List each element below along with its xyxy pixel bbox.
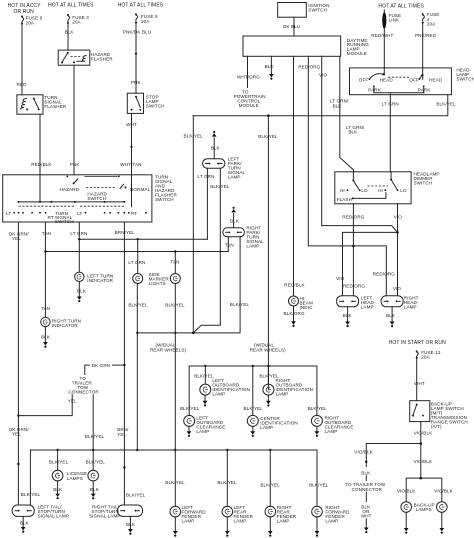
svg-text:BLK/YEL: BLK/YEL bbox=[244, 406, 264, 411]
svg-text:LAMP: LAMP bbox=[182, 519, 195, 524]
wire DK GRN/YEL from switch bbox=[9, 222, 29, 505]
svg-text:PARK: PARK bbox=[368, 88, 381, 93]
svg-text:LO: LO bbox=[361, 188, 368, 193]
svg-text:RT: RT bbox=[48, 215, 54, 220]
wire BLK/YEL below side marker right bbox=[165, 284, 185, 451]
svg-text:LAMPS: LAMPS bbox=[416, 507, 432, 512]
svg-text:BRN/YEL: BRN/YEL bbox=[115, 230, 136, 235]
svg-text:RED/ORG: RED/ORG bbox=[298, 65, 320, 70]
svg-text:RED/ORG: RED/ORG bbox=[373, 271, 395, 276]
ground below right forward fender lamp bbox=[315, 517, 320, 537]
svg-text:BLK/ORG: BLK/ORG bbox=[284, 311, 305, 316]
ground below left forward fender lamp bbox=[173, 517, 178, 537]
svg-text:20A: 20A bbox=[421, 355, 430, 360]
wire PNK/RED fuse4 to headlamp switch bbox=[415, 24, 437, 80]
svg-text:BLK: BLK bbox=[211, 145, 221, 150]
lamp right outboard clearance bbox=[311, 415, 353, 434]
svg-text:FLASH: FLASH bbox=[337, 197, 352, 202]
wire VIO from module bbox=[319, 56, 328, 225]
svg-text:BLK: BLK bbox=[343, 313, 353, 318]
wire RED/ORG from module bbox=[298, 56, 320, 246]
svg-text:20A: 20A bbox=[427, 22, 436, 27]
wire LT GRN from left park lamp bbox=[197, 168, 214, 239]
wire BLK/YEL from left park lamp (jog to bus) bbox=[193, 168, 230, 333]
svg-text:LT: LT bbox=[6, 211, 11, 216]
svg-text:BLK/YEL: BLK/YEL bbox=[128, 302, 148, 307]
wire BLK/YEL w-dual bus y366 bbox=[189, 365, 317, 367]
lamp left turn indicator bbox=[75, 272, 114, 283]
svg-text:SWITCH: SWITCH bbox=[146, 104, 165, 109]
wire LT GRN headlamp switch to dimmer bbox=[382, 93, 399, 172]
svg-text:HAZARD: HAZARD bbox=[60, 187, 80, 192]
svg-text:BLK/YEL: BLK/YEL bbox=[258, 134, 278, 139]
wire RED/BLK module to hi-beam indicator bbox=[293, 56, 295, 296]
headlamp dimmer switch S3 bbox=[335, 172, 440, 204]
svg-text:BLK: BLK bbox=[126, 522, 136, 527]
svg-text:OR RUN: OR RUN bbox=[14, 9, 35, 15]
node HOT AT ALL TIMES (fuse 3) bbox=[48, 3, 94, 9]
wire WHT / WHT-TAN stop switch to switch box bbox=[120, 113, 141, 174]
wire PNK hazard flasher to switch bbox=[70, 65, 81, 175]
svg-text:LT: LT bbox=[77, 211, 82, 216]
lamp hi beam indicator bbox=[284, 282, 313, 309]
wire BLK/YEL ground bus y450 bbox=[30, 449, 317, 451]
svg-text:BLK: BLK bbox=[90, 487, 100, 492]
svg-text:BLK: BLK bbox=[230, 219, 240, 224]
svg-text:MODULE: MODULE bbox=[239, 103, 259, 108]
wire PNK/DK BLU fuse5 to stop lamp switch bbox=[123, 24, 151, 94]
lamp left park/turn signal bbox=[203, 157, 246, 180]
ground below hi beam indicator bbox=[284, 306, 305, 327]
svg-text:SWITCH: SWITCH bbox=[155, 197, 174, 202]
svg-text:BLK/YEL: BLK/YEL bbox=[217, 480, 237, 485]
ground below back-up lamp right bbox=[439, 512, 444, 533]
svg-text:BLK/YEL: BLK/YEL bbox=[86, 460, 106, 465]
wire to left outboard clearance lamp bbox=[180, 366, 200, 416]
wire BLK/YEL drop to w/dual section bbox=[230, 116, 278, 390]
wire YEL trailer connector to dk grn/yel bbox=[18, 395, 77, 416]
ground below left headlamp bbox=[343, 307, 353, 327]
ground below left outboard id lamp bbox=[203, 395, 208, 406]
svg-text:LIGHTS: LIGHTS bbox=[149, 281, 166, 286]
svg-text:VIO: VIO bbox=[393, 286, 402, 291]
svg-text:LAMP: LAMP bbox=[212, 392, 225, 397]
svg-text:SWITCH: SWITCH bbox=[308, 7, 327, 12]
wire BLK/YEL from right park lamp bbox=[193, 237, 240, 333]
fuse F4 20A bbox=[422, 12, 440, 26]
wire VIO bus from module to junction bbox=[322, 226, 398, 233]
svg-text:LAMP: LAMP bbox=[260, 425, 273, 430]
svg-text:LAMP: LAMP bbox=[196, 429, 209, 434]
fuse F5 20A bbox=[135, 13, 158, 24]
svg-text:BLK/YEL: BLK/YEL bbox=[260, 482, 280, 487]
node VIO junction bbox=[396, 231, 399, 234]
hazard flasher bbox=[58, 50, 113, 65]
node BLK/YEL junction on bus bbox=[267, 114, 270, 117]
fuse F9 20A bbox=[21, 16, 43, 26]
svg-text:BLK/YEL: BLK/YEL bbox=[49, 460, 69, 465]
svg-text:CONNECTOR: CONNECTOR bbox=[68, 390, 99, 395]
svg-text:WHT: WHT bbox=[361, 514, 372, 519]
ground right trailer tow bbox=[364, 528, 369, 534]
svg-text:SIGNAL LAMP: SIGNAL LAMP bbox=[89, 514, 121, 519]
wire license lamp 2 drop bbox=[86, 450, 106, 470]
wire VIO/BLK from back-up switch bbox=[414, 422, 434, 479]
node HOT AT ALL TIMES (fuse 5) bbox=[118, 3, 164, 9]
wire BLK fuse3 to hazard flasher bbox=[65, 24, 75, 50]
svg-text:LT GRN: LT GRN bbox=[70, 231, 87, 236]
svg-text:HOT IN START OR RUN: HOT IN START OR RUN bbox=[389, 340, 446, 346]
wire RED fuse9 to turn signal flasher bbox=[17, 25, 28, 95]
svg-text:BLK: BLK bbox=[386, 313, 396, 318]
ground below left turn indicator bbox=[77, 282, 87, 303]
turn signal flasher bbox=[17, 95, 67, 114]
svg-text:LAMP: LAMP bbox=[228, 175, 241, 180]
svg-text:YEL: YEL bbox=[12, 236, 21, 241]
svg-text:RED/ORG: RED/ORG bbox=[342, 214, 364, 219]
svg-text:RED/ORG: RED/ORG bbox=[343, 284, 365, 289]
svg-text:RED/BLK: RED/BLK bbox=[31, 162, 52, 167]
ground below right turn indicator bbox=[41, 327, 51, 348]
svg-text:BLK/YEL: BLK/YEL bbox=[85, 434, 105, 439]
svg-text:BLK/YEL: BLK/YEL bbox=[308, 406, 328, 411]
wire TAN from switch bbox=[41, 222, 51, 317]
lamp left tail/stop/turn signal bbox=[12, 505, 69, 519]
svg-text:VIO/BLK: VIO/BLK bbox=[354, 449, 373, 454]
svg-text:RT: RT bbox=[131, 211, 137, 216]
svg-text:HOT AT ALL TIMES: HOT AT ALL TIMES bbox=[48, 3, 94, 9]
svg-text:VIO: VIO bbox=[394, 214, 403, 219]
svg-text:BLK/YEL: BLK/YEL bbox=[21, 492, 41, 497]
svg-text:SWITCH: SWITCH bbox=[414, 181, 433, 186]
svg-text:LAMPS: LAMPS bbox=[67, 476, 83, 481]
ground below right headlamp bbox=[386, 307, 396, 327]
wire BLK/YEL bus left end to left tail lamp bbox=[21, 450, 41, 505]
lamp right outboard identification bbox=[259, 374, 313, 397]
wire BLK OR WHT to ground bbox=[361, 492, 372, 527]
svg-text:PNK/DK BLU: PNK/DK BLU bbox=[123, 30, 151, 35]
ground module BLK bbox=[269, 74, 274, 80]
svg-text:VIO/BLK: VIO/BLK bbox=[434, 489, 453, 494]
lamp right turn indicator bbox=[41, 317, 81, 328]
node HOT AT ALL TIMES (headlamps) bbox=[378, 4, 424, 10]
svg-text:BLK/YEL: BLK/YEL bbox=[180, 406, 200, 411]
wire BLK/YEL below side marker left bbox=[128, 284, 148, 451]
svg-text:BLK: BLK bbox=[53, 487, 63, 492]
wire BLK/YEL bus drop left bbox=[184, 116, 204, 333]
svg-text:YEL: YEL bbox=[117, 432, 126, 437]
label w/dual rear wheels (right) bbox=[250, 343, 287, 353]
svg-text:VIO/BLK: VIO/BLK bbox=[414, 430, 433, 435]
wire LT GRN bus y239 bbox=[78, 238, 207, 240]
svg-text:20A: 20A bbox=[26, 20, 35, 25]
svg-text:RED/BLK: RED/BLK bbox=[284, 282, 305, 287]
svg-text:LAMP: LAMP bbox=[325, 429, 338, 434]
svg-text:BLK: BLK bbox=[333, 103, 343, 108]
svg-text:LAMP: LAMP bbox=[246, 244, 259, 249]
wire WHT/ORG to powertrain control module bbox=[234, 56, 266, 108]
svg-text:VIO/BLK: VIO/BLK bbox=[414, 459, 433, 464]
wire to right outboard clearance lamp bbox=[308, 366, 328, 416]
ground below right tail lamp bbox=[126, 516, 136, 534]
lamp right headlamp bbox=[381, 296, 419, 310]
lamp license 2 bbox=[67, 470, 99, 481]
wire license lamp 1 drop bbox=[49, 450, 69, 470]
svg-text:LAMP: LAMP bbox=[325, 519, 338, 524]
wire BLK to right trailer tow connector bbox=[361, 457, 371, 481]
svg-text:(A/T): (A/T) bbox=[431, 424, 442, 429]
svg-text:OFF: OFF bbox=[359, 78, 369, 83]
lamp right tail/stop/turn signal bbox=[89, 492, 146, 518]
lamp back-up left bbox=[401, 502, 435, 513]
svg-text:SWITCH: SWITCH bbox=[87, 196, 106, 201]
svg-text:LAMP: LAMP bbox=[361, 305, 374, 310]
back-up lamp switch S4 bbox=[410, 401, 468, 429]
svg-text:BLK/YEL: BLK/YEL bbox=[436, 101, 456, 106]
lamp center identification bbox=[247, 415, 298, 429]
svg-text:BLK/YEL: BLK/YEL bbox=[165, 302, 185, 307]
svg-text:INDICATOR: INDICATOR bbox=[87, 278, 113, 283]
svg-text:LO: LO bbox=[400, 188, 407, 193]
lamp left outboard clearance bbox=[184, 415, 226, 434]
lamp left forward fender bbox=[165, 450, 206, 524]
svg-text:HOT AT ALL TIMES: HOT AT ALL TIMES bbox=[118, 3, 164, 9]
wire RED/WHT fuse link to headlamp switch bbox=[371, 28, 393, 74]
svg-text:BLK: BLK bbox=[361, 471, 371, 476]
svg-text:NORMAL: NORMAL bbox=[130, 187, 151, 192]
node HOT IN START OR RUN bbox=[389, 340, 446, 346]
svg-text:BLK: BLK bbox=[77, 288, 87, 293]
lamp right rear fender bbox=[260, 450, 296, 524]
svg-text:CONNECTOR: CONNECTOR bbox=[352, 487, 383, 492]
node RED/ORG junction bbox=[352, 245, 355, 248]
wire LT GRN/BLK diagonal into dimmer bbox=[340, 125, 365, 172]
svg-text:LT GRN: LT GRN bbox=[128, 260, 145, 265]
wire BRN/YEL from switch bbox=[115, 222, 136, 505]
svg-text:REAR WHEELS): REAR WHEELS) bbox=[150, 347, 187, 352]
svg-text:LT GRN: LT GRN bbox=[197, 174, 214, 179]
svg-text:FLASHER: FLASHER bbox=[44, 104, 66, 109]
svg-text:SWITCH: SWITCH bbox=[55, 219, 74, 224]
svg-text:20A: 20A bbox=[72, 20, 81, 25]
wire DK BLU ignition to DRL module bbox=[283, 17, 300, 36]
lamp license 1 bbox=[52, 470, 63, 481]
lamp right forward fender bbox=[309, 450, 350, 524]
svg-text:VIO/BLK: VIO/BLK bbox=[397, 489, 416, 494]
wire VIO from dimmer bbox=[393, 204, 402, 296]
wire BLK/YEL headlamp switch to bus bbox=[193, 95, 456, 116]
headlamp switch S1 bbox=[350, 68, 474, 95]
svg-text:LINK: LINK bbox=[389, 17, 400, 22]
wire VIO/BLK splitter to back-up lamps bbox=[397, 477, 454, 502]
ground below right outboard id lamp bbox=[266, 395, 271, 406]
ground above right park/turn lamp bbox=[230, 207, 240, 228]
svg-text:INDIC: INDIC bbox=[300, 305, 314, 310]
lamp left outboard identification bbox=[200, 378, 250, 397]
wire BLK/YEL trailer connector to ground bus bbox=[85, 395, 105, 450]
lamp right park/turn signal bbox=[223, 226, 264, 249]
wire WHT fuse13 to back-up lamp switch bbox=[414, 359, 425, 401]
svg-text:BLK: BLK bbox=[348, 130, 358, 135]
svg-text:BLK: BLK bbox=[265, 64, 275, 69]
svg-text:LAMP: LAMP bbox=[234, 519, 247, 524]
svg-text:YEL: YEL bbox=[68, 399, 77, 404]
svg-text:HI: HI bbox=[340, 188, 345, 193]
svg-text:DK GRN: DK GRN bbox=[92, 363, 110, 368]
svg-text:LAMP: LAMP bbox=[277, 519, 290, 524]
wire TAN side marker drop bbox=[170, 250, 179, 273]
svg-text:WHT: WHT bbox=[414, 381, 425, 386]
svg-text:BLK: BLK bbox=[65, 30, 75, 35]
svg-text:WHT/ORG: WHT/ORG bbox=[237, 74, 260, 79]
svg-text:BLK/YEL: BLK/YEL bbox=[184, 134, 204, 139]
svg-text:TAN: TAN bbox=[42, 231, 51, 236]
svg-text:TAN: TAN bbox=[41, 306, 50, 311]
svg-text:TAN: TAN bbox=[225, 242, 234, 247]
ground below right rear fender lamp bbox=[268, 517, 273, 537]
svg-text:BLK: BLK bbox=[41, 335, 51, 340]
ground below license lamp 1 bbox=[53, 481, 63, 499]
ground above left park/turn lamp bbox=[211, 131, 221, 159]
wire RED/ORG bus to right headlamp bbox=[308, 246, 395, 296]
svg-text:TAN: TAN bbox=[170, 260, 179, 265]
label w/dual rear wheels (left) bbox=[150, 343, 187, 353]
node HOT IN ACCY OR RUN bbox=[8, 3, 42, 15]
wire to right outboard identification lamp bbox=[267, 366, 269, 384]
lamp left rear fender bbox=[217, 450, 253, 524]
svg-text:YEL: YEL bbox=[12, 432, 21, 437]
svg-text:WHT: WHT bbox=[126, 122, 137, 127]
wire VIO/BLK branch to trailer tow connector bbox=[354, 444, 421, 458]
stop lamp switch bbox=[127, 93, 164, 113]
turn signal and hazard flasher switch S2 bbox=[3, 175, 178, 225]
ground below left rear fender lamp bbox=[225, 517, 230, 537]
lamp side marker left bbox=[133, 274, 143, 284]
svg-text:HOT AT ALL TIMES: HOT AT ALL TIMES bbox=[378, 4, 424, 10]
wire VIO to left headlamp bbox=[336, 232, 397, 295]
svg-text:RED/WHT: RED/WHT bbox=[371, 33, 393, 38]
ground below center identification lamp bbox=[250, 426, 255, 437]
connector TO TRAILER TOW (left) bbox=[68, 376, 99, 395]
lamp side marker right bbox=[149, 272, 181, 286]
svg-text:BLK/YEL: BLK/YEL bbox=[165, 480, 185, 485]
ground below left outboard clearance lamp bbox=[187, 426, 192, 437]
daytime running lamp module U1 bbox=[243, 36, 369, 56]
fuse F3 20A bbox=[67, 14, 89, 25]
connector TO TRAILER TOW (right) bbox=[345, 482, 386, 492]
svg-text:MODULE: MODULE bbox=[347, 51, 367, 56]
svg-text:HEAD: HEAD bbox=[380, 78, 394, 83]
svg-text:LT GRN: LT GRN bbox=[382, 101, 399, 106]
wire LT GRN/BLK from module corner bbox=[330, 56, 349, 157]
lamp left headlamp bbox=[337, 296, 376, 310]
svg-text:LAMP: LAMP bbox=[276, 392, 289, 397]
svg-text:VIO: VIO bbox=[319, 73, 328, 78]
ground below back-up lamp left bbox=[404, 512, 409, 533]
svg-text:DK BLU: DK BLU bbox=[283, 24, 300, 29]
svg-text:RED: RED bbox=[17, 82, 28, 87]
wire LT GRN side marker drop bbox=[128, 239, 145, 273]
svg-text:INDICATOR: INDICATOR bbox=[52, 323, 78, 328]
wire LT GRN from switch bbox=[70, 222, 87, 272]
svg-text:PNK/RED: PNK/RED bbox=[415, 33, 437, 38]
ignition switch bbox=[278, 3, 330, 18]
svg-text:SWITCH: SWITCH bbox=[456, 77, 474, 82]
svg-text:REAR WHEELS): REAR WHEELS) bbox=[250, 347, 287, 352]
fuse link bbox=[382, 10, 401, 29]
fuse F13 20A bbox=[416, 350, 441, 360]
svg-text:HI: HI bbox=[378, 188, 383, 193]
wire RED/BLK flasher to switch bbox=[31, 114, 52, 175]
svg-text:BLK/YEL: BLK/YEL bbox=[126, 492, 146, 497]
wire BLK from module bbox=[265, 56, 275, 74]
ground below right outboard clearance lamp bbox=[315, 426, 320, 437]
ground below license lamp 2 bbox=[90, 481, 100, 499]
svg-text:VIO: VIO bbox=[336, 276, 345, 281]
svg-text:PNK: PNK bbox=[70, 162, 81, 167]
svg-text:SIGNAL LAMP: SIGNAL LAMP bbox=[38, 514, 70, 519]
svg-text:BLK/YEL: BLK/YEL bbox=[210, 184, 230, 189]
svg-text:PNK: PNK bbox=[131, 80, 142, 85]
svg-text:PARK: PARK bbox=[418, 88, 431, 93]
wire RED/ORG from dimmer bbox=[342, 204, 365, 296]
wire to left outboard identification lamp bbox=[194, 366, 214, 384]
lamp back-up right bbox=[437, 502, 448, 513]
wire BLK/YEL bus y333 bbox=[136, 332, 195, 335]
svg-text:BLK/YEL: BLK/YEL bbox=[309, 482, 329, 487]
svg-text:HEAD: HEAD bbox=[429, 78, 443, 83]
svg-text:BLK/YEL: BLK/YEL bbox=[194, 374, 214, 379]
wire to center identification lamp bbox=[244, 366, 264, 416]
wire DK GRN branch to trailer tow connector bbox=[85, 363, 125, 374]
svg-text:20A: 20A bbox=[141, 19, 150, 24]
wire TAN to right park lamp bbox=[45, 237, 233, 252]
svg-text:WHT/TAN: WHT/TAN bbox=[120, 162, 141, 167]
svg-text:OFF: OFF bbox=[409, 78, 419, 83]
svg-text:LAMP: LAMP bbox=[404, 305, 417, 310]
ground below left tail lamp bbox=[20, 516, 30, 532]
svg-text:FLASHER: FLASHER bbox=[91, 56, 113, 61]
svg-text:BLK: BLK bbox=[20, 521, 30, 526]
